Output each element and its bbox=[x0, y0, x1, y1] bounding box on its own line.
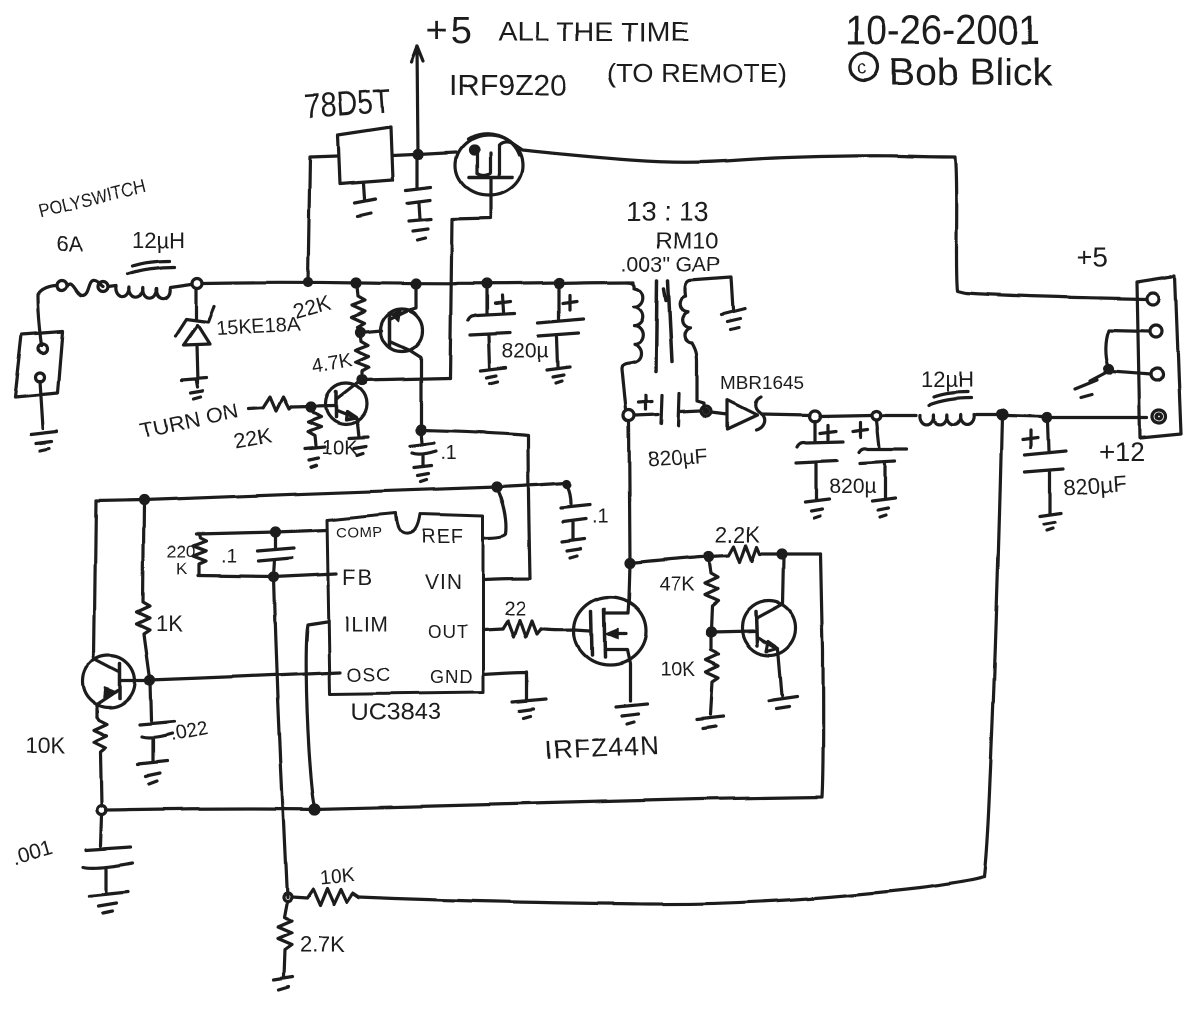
ground 10K turn-on bbox=[305, 447, 325, 467]
polyswitch F1 bbox=[57, 281, 67, 291]
svg-text:VIN: VIN bbox=[425, 571, 463, 594]
diode D2 MBR1645 bbox=[711, 400, 757, 429]
ground cap D bbox=[872, 498, 895, 517]
svg-text:12µH: 12µH bbox=[132, 228, 185, 253]
wire OSC bbox=[122, 672, 340, 680]
wire node to cap 001 bbox=[101, 815, 102, 846]
capacitor 820uF +12 bbox=[1025, 422, 1066, 513]
wire input connector to polyswitch bbox=[38, 286, 57, 345]
svg-text:2.2K: 2.2K bbox=[715, 522, 761, 547]
capacitor 820uF primary bbox=[635, 394, 700, 426]
input connector J1 bbox=[15, 331, 63, 397]
junction rail at 416 bbox=[412, 280, 420, 288]
wire VIN riser bbox=[423, 430, 530, 579]
junction ILIM bottom bbox=[311, 805, 320, 814]
ground Q4 emitter bbox=[769, 697, 797, 709]
junction 4.7K bottom bbox=[358, 376, 366, 384]
svg-text:FB: FB bbox=[342, 565, 374, 590]
wire turn-on base bbox=[291, 406, 334, 407]
capacitor 0.1 right bbox=[561, 485, 590, 539]
svg-text:820µ: 820µ bbox=[829, 475, 876, 498]
wire comp loop top bbox=[196, 532, 276, 534]
wire output rail bbox=[820, 415, 872, 416]
svg-text:IRF9Z20: IRF9Z20 bbox=[449, 70, 567, 102]
wire node to mosfet bbox=[418, 152, 456, 154]
resistor 47K bbox=[705, 558, 718, 630]
transformer secondary coil bbox=[680, 296, 692, 343]
resistor 22 bbox=[503, 620, 541, 637]
svg-text:10K: 10K bbox=[26, 733, 65, 758]
wire +12 riser bbox=[984, 417, 1002, 877]
junction REF top bbox=[493, 483, 501, 491]
wire FB divider bbox=[274, 578, 287, 897]
transistor Q3 NPN turn-on bbox=[326, 384, 367, 425]
svg-text:10K: 10K bbox=[660, 659, 696, 681]
wire OUT pin bbox=[484, 629, 503, 630]
wire bottom line A bbox=[106, 554, 823, 810]
svg-text:ALL THE TIME: ALL THE TIME bbox=[499, 17, 689, 47]
ground 10K q4 bbox=[697, 716, 724, 728]
svg-text:15KE18A: 15KE18A bbox=[215, 314, 301, 340]
wire output rail to inductor bbox=[881, 413, 916, 416]
resistor 22K upper bbox=[352, 286, 365, 330]
wire +5 arrow bbox=[411, 46, 423, 154]
resistor 220K bbox=[193, 534, 206, 576]
svg-text:+12: +12 bbox=[1099, 437, 1145, 467]
inductor L1 12uH bbox=[108, 286, 116, 287]
svg-text:ILIM: ILIM bbox=[344, 613, 389, 636]
wire rail to 78D5T bbox=[308, 156, 338, 281]
ground cap .022 bbox=[138, 761, 167, 784]
svg-text:+5: +5 bbox=[1076, 242, 1108, 273]
inductor L2 12uH bbox=[920, 415, 974, 425]
junction 2.2K right bbox=[778, 550, 786, 558]
capacitor 820u C bbox=[796, 421, 843, 499]
svg-text:UC3843: UC3843 bbox=[351, 699, 441, 726]
ground cap .001 bbox=[89, 892, 128, 913]
ground cap 0.1 right bbox=[562, 539, 584, 558]
svg-text:2.7K: 2.7K bbox=[300, 932, 346, 957]
ground Q3 emitter bbox=[349, 437, 368, 455]
svg-text:820µF: 820µF bbox=[1063, 471, 1127, 500]
wire main rail bbox=[202, 282, 634, 284]
svg-text:12µH: 12µH bbox=[921, 367, 974, 392]
svg-text:+5: +5 bbox=[426, 10, 475, 52]
capacitor 820u A bbox=[468, 286, 514, 368]
node FB divider bbox=[283, 893, 291, 901]
wire 78D5T to node bbox=[393, 154, 414, 155]
resistor 4.7K bbox=[356, 333, 369, 379]
wire GND pin bbox=[483, 672, 527, 699]
svg-text:10K: 10K bbox=[319, 864, 357, 889]
output connector J2 bbox=[1137, 276, 1181, 438]
wire 4.7K to mosfet drain line bbox=[362, 378, 450, 380]
resistor 1K bbox=[137, 502, 150, 678]
junction comp cap top bbox=[272, 528, 280, 536]
junction rail at 308 bbox=[305, 279, 312, 286]
svg-text:COMP: COMP bbox=[336, 524, 383, 541]
svg-text:13 : 13: 13 : 13 bbox=[626, 197, 709, 227]
transistor Q2 PNP bbox=[381, 309, 423, 351]
ground input connector bbox=[31, 381, 57, 450]
node 10K bottom bbox=[98, 806, 107, 815]
svg-text:OUT: OUT bbox=[428, 622, 469, 642]
ground 78D5T bbox=[355, 184, 376, 216]
capacitor 820u D bbox=[859, 420, 907, 498]
resistor 10K q4 bbox=[706, 634, 719, 714]
wire FB bbox=[198, 574, 336, 577]
junction rail at 356 bbox=[352, 279, 360, 287]
svg-text:OSC: OSC bbox=[347, 665, 391, 686]
ground cap 0.1 mid bbox=[414, 466, 431, 482]
resistor 10K feedback bbox=[291, 888, 359, 905]
junction +12 rail bbox=[998, 411, 1007, 420]
mosfet Q5 IRFZ44N bbox=[574, 597, 646, 665]
IC U1 UC3843 box bbox=[327, 513, 483, 694]
capacitor at node 418 bbox=[406, 158, 431, 219]
node output rail left bbox=[810, 411, 821, 422]
ground cap +12 bbox=[1040, 513, 1061, 530]
capacitor 0.1 comp bbox=[258, 533, 294, 576]
svg-text:820µ: 820µ bbox=[502, 340, 549, 363]
junction drain feed bbox=[626, 559, 634, 567]
node main rail left bbox=[192, 278, 202, 288]
node primary cap left bbox=[624, 411, 635, 422]
node output rail mid bbox=[873, 411, 882, 420]
copyright symbol bbox=[850, 53, 878, 81]
ground connector bbox=[1075, 372, 1107, 398]
ground 2.7K bbox=[274, 977, 293, 990]
junction rail at 559 bbox=[555, 279, 563, 287]
capacitor .022 bbox=[140, 681, 174, 761]
junction connector ground bbox=[1105, 365, 1113, 373]
resistor 10K turn-on bbox=[308, 410, 321, 446]
ground capacitor 418 bbox=[409, 219, 431, 240]
wire drain to 47K node bbox=[630, 556, 709, 563]
wire top rail left bbox=[96, 483, 567, 501]
wire connector pin2 bbox=[1106, 330, 1150, 365]
transformer T1 primary coil bbox=[628, 282, 643, 363]
junction FB bbox=[270, 573, 278, 581]
capacitor .001 bbox=[83, 847, 133, 892]
resistor 10K left bbox=[94, 717, 107, 806]
wire connector pin3 bbox=[1112, 371, 1151, 374]
wire base Q2 bbox=[361, 330, 382, 332]
svg-text:1K: 1K bbox=[156, 611, 183, 636]
junction 47K bottom bbox=[707, 628, 715, 636]
ground cap B bbox=[547, 367, 570, 383]
wire 22 to gate bbox=[541, 629, 590, 631]
junction OSC 1K bbox=[146, 676, 154, 684]
ground TVS bbox=[181, 378, 206, 399]
wire ILIM bbox=[306, 622, 327, 806]
svg-text:REF: REF bbox=[421, 526, 464, 548]
ground cap A bbox=[481, 368, 506, 384]
ground cap C bbox=[805, 499, 829, 518]
wire 2.2K to loop corner bbox=[782, 552, 821, 555]
resistor 2.2K bbox=[709, 545, 778, 562]
svg-text:22: 22 bbox=[504, 598, 526, 620]
svg-text:K: K bbox=[176, 559, 188, 578]
svg-text:c: c bbox=[857, 58, 867, 79]
wire left rail top bbox=[94, 501, 96, 657]
svg-text:.003" GAP: .003" GAP bbox=[621, 253, 721, 276]
svg-text:47K: 47K bbox=[659, 574, 695, 596]
svg-text:.1: .1 bbox=[221, 546, 238, 568]
node primary cap right bbox=[701, 406, 711, 416]
mosfet Q1 IRF9Z20 bbox=[456, 135, 523, 195]
wire drain line down bbox=[629, 422, 630, 563]
ground secondary bbox=[721, 309, 745, 330]
wire mosfet to +5 connector bbox=[499, 142, 1147, 299]
svg-text:GND: GND bbox=[430, 667, 473, 687]
capacitor 820u B bbox=[538, 285, 583, 367]
junction 0.1 mid bbox=[417, 426, 425, 434]
ground UC3843 bbox=[513, 699, 546, 718]
resistor 2.7K bbox=[278, 901, 292, 977]
wire REF to top rail bbox=[484, 488, 506, 538]
junction 47K top bbox=[705, 552, 713, 560]
junction 22K 4.7K base bbox=[357, 328, 365, 336]
svg-text:Bob Blick: Bob Blick bbox=[889, 52, 1053, 94]
wire base Q4 bbox=[711, 631, 754, 632]
regulator 78D5T bbox=[338, 127, 393, 184]
svg-text:820µF: 820µF bbox=[647, 445, 708, 472]
junction +12 cap bbox=[1043, 414, 1051, 422]
svg-text:10K: 10K bbox=[322, 437, 358, 459]
svg-text:MBR1645: MBR1645 bbox=[720, 373, 804, 393]
svg-text:(TO REMOTE): (TO REMOTE) bbox=[607, 58, 787, 88]
svg-text:.1: .1 bbox=[592, 506, 609, 528]
transformer core bbox=[656, 280, 672, 372]
svg-text:IRFZ44N: IRFZ44N bbox=[544, 729, 661, 765]
ground IRFZ44N source bbox=[616, 704, 647, 724]
junction base 10K bbox=[307, 403, 315, 411]
junction 1K top bbox=[140, 496, 148, 504]
svg-text:6A: 6A bbox=[56, 232, 83, 257]
resistor 22K turn-on bbox=[249, 397, 291, 411]
svg-text:10-26-2001: 10-26-2001 bbox=[845, 6, 1040, 53]
transistor Q4 NPN bbox=[742, 601, 796, 655]
wire COMP bbox=[276, 530, 327, 532]
transistor Q6 PNP left bbox=[83, 655, 135, 707]
junction rail at 487 bbox=[483, 280, 491, 288]
svg-text:78D5T: 78D5T bbox=[303, 82, 392, 126]
capacitor 0.1 mid bbox=[410, 432, 436, 466]
svg-text:.1: .1 bbox=[440, 442, 457, 464]
wire feedback line bbox=[359, 877, 984, 904]
svg-text:RM10: RM10 bbox=[655, 228, 719, 253]
TVS diode D1 15KE18A bbox=[194, 288, 197, 320]
junction node at x418 bbox=[414, 150, 422, 158]
